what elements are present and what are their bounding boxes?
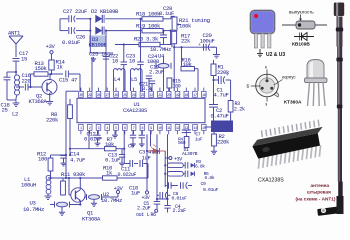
wire <box>146 134 148 191</box>
capacitor C7 <box>182 130 203 143</box>
svg-text:KT368A: KT368A <box>82 216 101 223</box>
svg-text:(на схеме - ANT1): (на схеме - ANT1) <box>296 197 336 202</box>
svg-text:24: 24 <box>132 94 136 98</box>
inductor L5 <box>131 69 143 91</box>
svg-text:R20 3.3k: R20 3.3k <box>134 36 159 43</box>
svg-text:2.2uF: 2.2uF <box>137 205 151 211</box>
label antenna text <box>296 183 336 202</box>
capacitor C23 <box>121 45 136 92</box>
wire <box>173 46 215 48</box>
capacitor C21 <box>139 81 155 93</box>
svg-text:13: 13 <box>185 127 189 131</box>
crystal U3 <box>23 200 80 214</box>
ground glyph U2 U3 <box>257 49 285 58</box>
svg-text:29: 29 <box>88 94 92 98</box>
varicap symbol KB109B <box>294 33 314 41</box>
resistor R4 <box>178 134 189 147</box>
svg-text:0.01uF: 0.01uF <box>62 39 80 46</box>
svg-text:C27 22uF: C27 22uF <box>63 8 87 15</box>
svg-text:100uH: 100uH <box>21 182 36 189</box>
capacitor C22 <box>103 53 119 65</box>
pin label E <box>265 102 268 107</box>
crystal U4 <box>156 53 171 92</box>
svg-text:6.8k: 6.8k <box>205 175 215 181</box>
antenna ANT1 <box>8 30 23 45</box>
varicap D3 <box>89 27 143 49</box>
capacitor C3 <box>139 131 160 162</box>
capacitor C13 <box>105 149 125 166</box>
wire <box>156 134 158 199</box>
capacitor C16 <box>16 72 32 90</box>
svg-text:2.2uF: 2.2uF <box>173 208 187 214</box>
resistor R2 <box>212 132 230 149</box>
svg-text:AL307B: AL307B <box>182 151 198 157</box>
capacitor C9 <box>165 181 218 193</box>
wire <box>90 52 106 54</box>
svg-text:27: 27 <box>106 94 110 98</box>
capacitor C5 <box>137 198 169 212</box>
wire bus <box>164 151 166 187</box>
capacitor C4 symbol <box>164 203 170 213</box>
wire <box>28 86 42 88</box>
svg-text:0.01uF: 0.01uF <box>172 196 188 202</box>
svg-text:14: 14 <box>193 127 197 131</box>
svg-text:15: 15 <box>202 127 206 131</box>
svg-text:КТ360А: КТ360А <box>284 100 302 106</box>
antenna bracket <box>317 196 343 216</box>
wire <box>167 134 169 202</box>
svg-text:10: 10 <box>112 58 119 65</box>
ground <box>112 131 118 138</box>
svg-text:к: к <box>265 65 267 70</box>
resistor R13 <box>31 60 49 87</box>
resistor R17 <box>172 30 191 47</box>
svg-text:штыревая: штыревая <box>307 190 331 195</box>
resistor R11 <box>61 171 86 195</box>
svg-text:220k: 220k <box>217 139 230 146</box>
label 10.7MHz <box>150 46 171 53</box>
svg-text:D2 KB109B: D2 KB109B <box>91 8 119 15</box>
ground <box>211 149 217 154</box>
capacitor C20 <box>198 32 217 51</box>
svg-text:150k: 150k <box>35 65 48 72</box>
ground <box>46 99 53 105</box>
wire <box>69 74 80 91</box>
svg-text:KB109B: KB109B <box>89 42 108 49</box>
ground <box>213 47 220 58</box>
capacitor C11 <box>118 160 149 178</box>
svg-text:+3V: +3V <box>174 156 182 162</box>
IC CXA1238S photo <box>252 120 322 169</box>
svg-text:28: 28 <box>97 94 101 98</box>
power +3V <box>165 156 182 162</box>
svg-text:2.2uF: 2.2uF <box>149 69 164 76</box>
capacitor C24 <box>137 19 160 91</box>
svg-text:10.7MHz: 10.7MHz <box>23 206 44 213</box>
svg-text:4.7uF: 4.7uF <box>70 157 85 164</box>
capacitor C8 <box>157 191 187 202</box>
node collector Q2 <box>48 73 63 75</box>
svg-text:0.022uF: 0.022uF <box>118 172 137 178</box>
svg-text:4.7uF: 4.7uF <box>214 92 229 99</box>
transistor KT360A photo <box>305 60 328 107</box>
svg-text:100: 100 <box>38 156 48 163</box>
svg-text:25: 25 <box>2 107 8 114</box>
wire <box>15 44 17 57</box>
svg-text:560: 560 <box>178 140 186 146</box>
svg-text:R11 930k: R11 930k <box>61 171 86 178</box>
ground <box>95 141 101 146</box>
transistor pinout circle <box>251 70 279 102</box>
transistor Q2 <box>29 74 58 105</box>
svg-text:23: 23 <box>141 94 145 98</box>
capacitor C10 <box>129 185 140 197</box>
svg-text:0.47uF: 0.47uF <box>211 113 229 120</box>
wire <box>170 16 175 44</box>
ground <box>91 199 97 206</box>
svg-text:10: 10 <box>158 127 162 131</box>
svg-text:25: 25 <box>123 94 127 98</box>
svg-text:KT368A: KT368A <box>29 98 48 105</box>
resistor R3b <box>228 80 245 127</box>
svg-text:R6: R6 <box>151 212 157 218</box>
inductor L2 <box>12 71 20 118</box>
wire <box>89 19 91 32</box>
svg-text:26: 26 <box>114 94 118 98</box>
svg-text:10: 10 <box>129 58 136 65</box>
wire <box>89 131 124 149</box>
svg-text:12: 12 <box>176 127 180 131</box>
svg-text:10.7MHz: 10.7MHz <box>101 197 122 204</box>
wire <box>124 149 126 164</box>
svg-text:100uF: 100uF <box>200 38 215 45</box>
svg-text:0.01uF: 0.01uF <box>84 136 102 143</box>
svg-text:CXA1238S: CXA1238S <box>123 107 148 114</box>
svg-text:C15 47: C15 47 <box>59 77 77 84</box>
op-amp U1 body <box>77 98 205 122</box>
svg-text:220: 220 <box>22 78 32 85</box>
svg-text:10.7MHz: 10.7MHz <box>150 46 171 53</box>
svg-text:11: 11 <box>167 127 171 131</box>
capacitor C12 <box>84 131 102 143</box>
svg-text:U2 & U3: U2 & U3 <box>266 52 285 58</box>
wire <box>60 19 68 31</box>
svg-text:1uF: 1uF <box>131 190 140 197</box>
resistor R20 <box>115 36 164 47</box>
svg-text:C9: C9 <box>201 181 207 187</box>
svg-text:0.1uF: 0.1uF <box>105 157 120 164</box>
svg-text:15: 15 <box>21 56 27 63</box>
diode body side view <box>282 15 327 30</box>
svg-text:антенна: антенна <box>311 183 330 188</box>
inductor L1 <box>21 175 51 194</box>
svg-text:out L: out L <box>136 212 150 218</box>
svg-text:6.8k: 6.8k <box>195 164 205 170</box>
resistor R8 <box>46 99 72 155</box>
svg-text:17: 17 <box>193 94 197 98</box>
svg-text:L5: L5 <box>131 76 137 83</box>
pin label K <box>265 65 267 70</box>
capacitor C27 <box>60 8 90 22</box>
svg-text:КВ109В: КВ109В <box>292 42 310 48</box>
wire <box>157 46 159 48</box>
label CXA1238S photo <box>258 178 284 184</box>
ground <box>59 207 65 216</box>
wire <box>65 155 67 179</box>
svg-text:16: 16 <box>202 94 206 98</box>
svg-text:Б: Б <box>247 84 250 89</box>
resistor R18 <box>136 11 171 22</box>
resistor R14 <box>49 54 66 74</box>
power +3V <box>142 191 150 201</box>
wire <box>89 31 91 53</box>
pin numbers top row <box>79 88 207 98</box>
capacitor C6 <box>128 131 145 150</box>
svg-text:CXA1238S: CXA1238S <box>258 178 284 184</box>
resistor R15 <box>167 78 181 91</box>
resistor R16 <box>181 47 198 91</box>
svg-text:20: 20 <box>167 94 171 98</box>
crystal U2 <box>84 191 122 204</box>
resistor R3 <box>167 159 205 169</box>
svg-text:3.3: 3.3 <box>142 85 151 92</box>
svg-text:220k: 220k <box>46 117 59 124</box>
wire <box>7 98 16 100</box>
antenna rod photo <box>334 3 344 210</box>
wire <box>48 177 103 179</box>
svg-text:э: э <box>265 102 268 107</box>
wire <box>173 47 175 91</box>
label KB109V <box>292 42 310 48</box>
capacitor C14 <box>60 151 85 167</box>
varicap package KB109B photo <box>251 11 275 49</box>
transistor Q1 <box>71 188 101 223</box>
power +3V <box>46 43 56 54</box>
svg-text:выпуклость: выпуклость <box>289 10 314 15</box>
ground <box>45 194 52 200</box>
wire <box>69 178 71 195</box>
junction block <box>205 121 233 133</box>
capacitor C17 <box>13 50 29 63</box>
svg-text:19: 19 <box>176 94 180 98</box>
svg-text:корпус: корпус <box>282 75 296 80</box>
svg-text:100k: 100k <box>179 22 192 29</box>
resistor R10 <box>103 165 126 181</box>
LED D1 <box>146 145 198 157</box>
potentiometer R21 <box>172 17 210 30</box>
wire <box>105 31 107 91</box>
resistor R5 <box>167 171 214 182</box>
wire <box>66 91 78 155</box>
svg-text:21: 21 <box>158 94 162 98</box>
capacitor C4 <box>173 204 187 214</box>
svg-text:C6: C6 <box>128 143 134 150</box>
capacitor C1 <box>212 73 230 105</box>
svg-text:22k: 22k <box>181 38 191 45</box>
pin numbers bottom row <box>79 125 207 135</box>
pin label B <box>247 84 250 89</box>
svg-text:+3V: +3V <box>46 43 56 50</box>
svg-text:L4: L4 <box>114 76 121 83</box>
svg-text:ANT1: ANT1 <box>8 30 21 37</box>
resistor R19 <box>136 23 171 33</box>
capacitor C2 <box>209 105 229 121</box>
label vypuklost <box>289 10 314 15</box>
resistor R12 <box>37 151 66 179</box>
varicap D2 <box>89 8 142 23</box>
capacitor C26 <box>62 27 90 46</box>
svg-text:1uF: 1uF <box>195 137 203 143</box>
svg-text:18: 18 <box>185 94 189 98</box>
svg-text:+3V: +3V <box>114 185 124 192</box>
capacitor C28 <box>159 5 174 47</box>
ground <box>13 101 20 107</box>
capacitor C25 <box>89 51 114 92</box>
label OUT L <box>136 212 156 218</box>
svg-text:30: 30 <box>79 94 83 98</box>
resistor R7 <box>69 136 125 151</box>
svg-text:22: 22 <box>149 94 153 98</box>
svg-text:1k: 1k <box>57 64 64 71</box>
wire <box>125 164 148 179</box>
capacitor C15 <box>59 71 77 84</box>
svg-text:L2: L2 <box>12 111 18 118</box>
label korpus <box>274 75 296 86</box>
resistor R1 <box>211 60 230 80</box>
capacitor C18 <box>1 72 17 114</box>
label KT360A <box>284 100 302 106</box>
wire <box>79 201 81 206</box>
svg-text:2.2k: 2.2k <box>234 107 245 113</box>
wire <box>15 61 17 75</box>
wire <box>79 177 81 189</box>
power +3V <box>114 185 124 197</box>
capacitor C19 <box>146 64 164 92</box>
svg-text:0.01uF: 0.01uF <box>203 187 219 193</box>
inductor L4 <box>114 69 126 91</box>
